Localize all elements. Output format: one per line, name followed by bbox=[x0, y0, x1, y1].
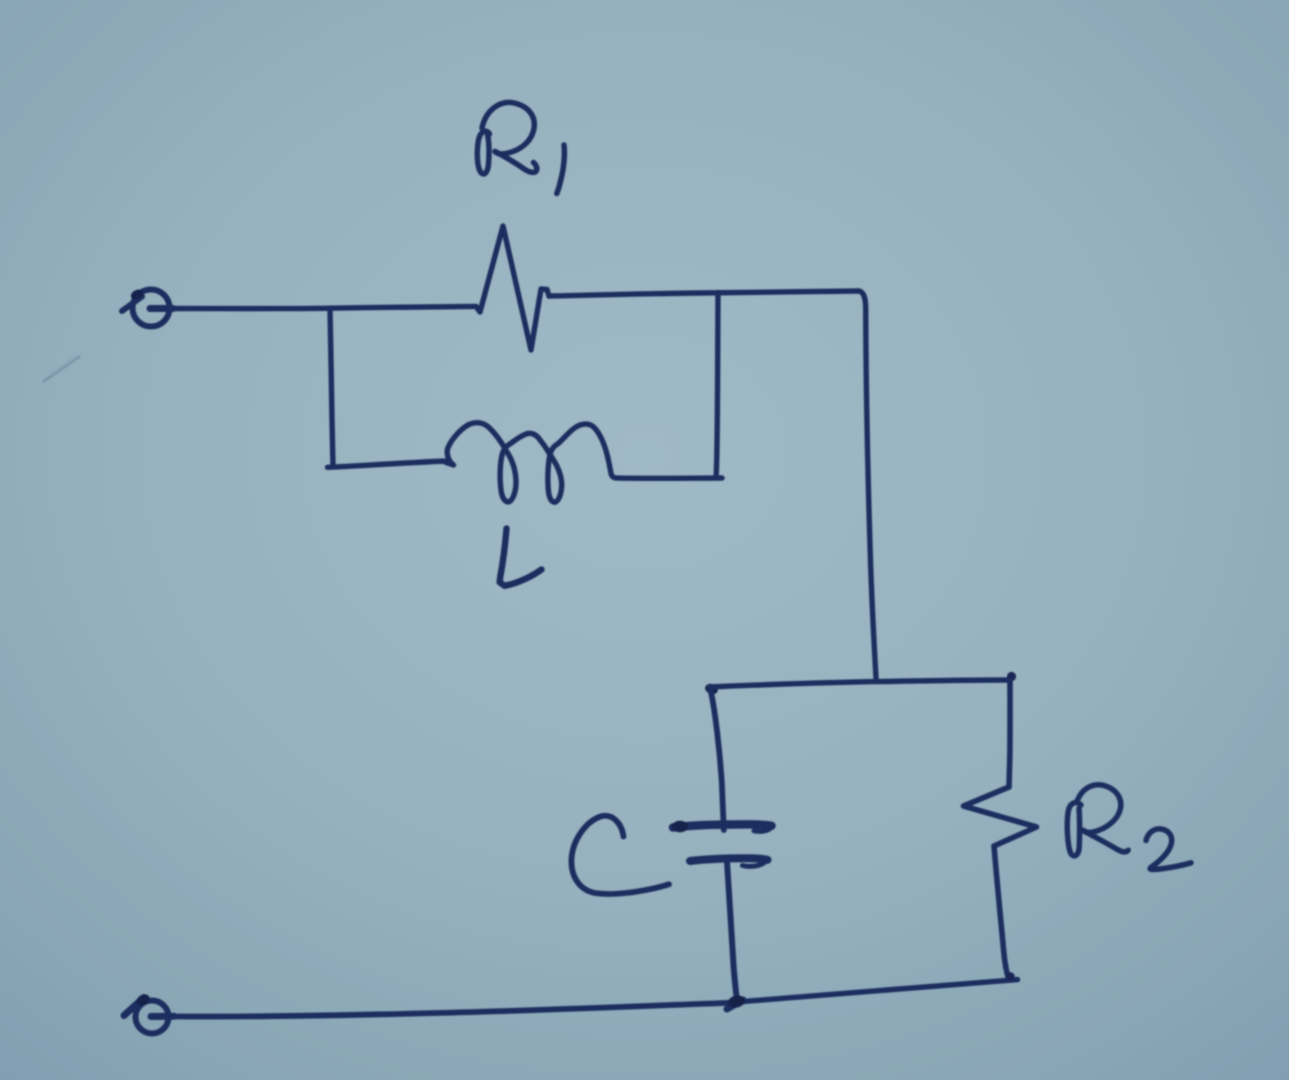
capacitor C: upper lead bbox=[710, 687, 724, 830]
wire: box right vertical up bbox=[716, 293, 718, 478]
capacitor C: top plate bbox=[673, 824, 772, 827]
terminal top-left bbox=[122, 287, 173, 326]
capacitor C: lower lead bbox=[727, 862, 737, 1001]
node: box bottom-right corner bbox=[1006, 972, 1014, 980]
inductor L bbox=[446, 423, 722, 502]
wire: C/R2 box top bbox=[710, 680, 1008, 687]
label C bbox=[571, 816, 669, 894]
wire: long vertical down bbox=[859, 291, 876, 678]
resistor R2 bbox=[964, 787, 1037, 846]
node: box top-right corner bbox=[1007, 672, 1016, 681]
wire: R1 right to corner bbox=[549, 291, 859, 296]
wire: box bottom-left horizontal bbox=[328, 461, 447, 467]
capacitor C: bottom plate bbox=[690, 858, 768, 861]
node junction: left branch top bbox=[330, 308, 333, 466]
wire: R2 top vertical bbox=[1009, 681, 1010, 788]
label R2 bbox=[1067, 785, 1191, 870]
label R1 bbox=[477, 102, 564, 193]
faint scratch mark bbox=[44, 357, 79, 381]
label L bbox=[500, 529, 542, 586]
terminal bottom-left bbox=[124, 992, 174, 1033]
resistor R1 bbox=[476, 226, 549, 350]
wire: R2 bottom vertical bbox=[994, 846, 1009, 979]
wire: bottom main bbox=[169, 1003, 735, 1017]
node junction: bottom bbox=[727, 1000, 743, 1009]
node: box top-left corner bbox=[704, 682, 720, 696]
wire: top terminal to R1 bbox=[170, 306, 476, 308]
wire: box bottom bbox=[737, 980, 1018, 1002]
